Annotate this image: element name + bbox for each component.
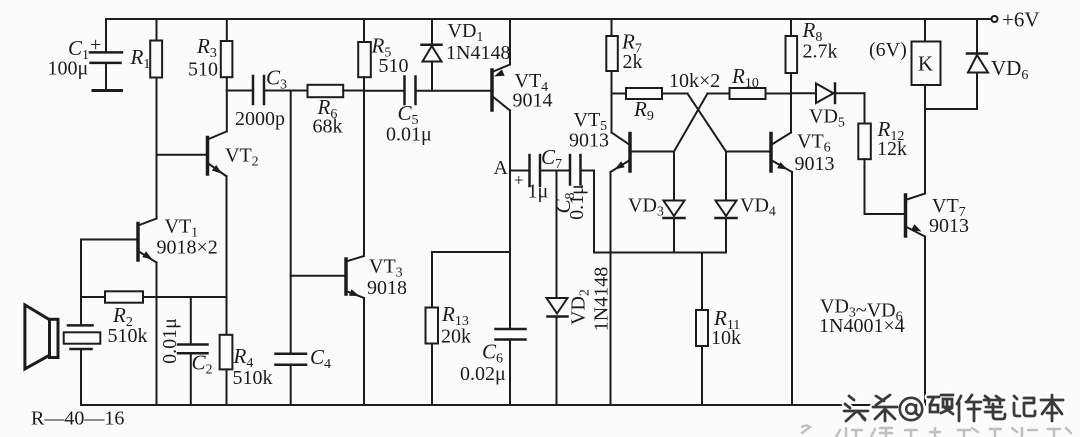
svg-text:2.7k: 2.7k	[803, 41, 838, 63]
svg-text:12k: 12k	[877, 138, 907, 160]
svg-text:510: 510	[379, 55, 409, 77]
svg-text:100μ: 100μ	[48, 58, 89, 80]
svg-text:+: +	[90, 34, 101, 56]
svg-text:0.02μ: 0.02μ	[460, 363, 506, 385]
svg-text:10k: 10k	[711, 327, 741, 349]
svg-text:510k: 510k	[233, 367, 273, 389]
svg-text:510: 510	[188, 59, 218, 81]
svg-text:A: A	[494, 157, 509, 179]
svg-text:2000p: 2000p	[235, 108, 285, 130]
svg-text:20k: 20k	[441, 326, 471, 348]
svg-text:9013: 9013	[929, 215, 969, 237]
svg-text:1N4148: 1N4148	[446, 42, 510, 64]
svg-text:9013: 9013	[569, 130, 609, 152]
svg-text:510k: 510k	[108, 325, 148, 347]
svg-text:+: +	[514, 171, 524, 190]
svg-text:9013: 9013	[795, 153, 835, 175]
svg-text:9018×2: 9018×2	[157, 237, 218, 259]
svg-text:0.1μ: 0.1μ	[566, 184, 588, 220]
svg-text:9014: 9014	[513, 90, 553, 112]
svg-text:1N4001×4: 1N4001×4	[819, 315, 905, 337]
svg-text:0.01μ: 0.01μ	[386, 124, 432, 146]
svg-text:68k: 68k	[313, 116, 343, 138]
svg-text:+6V: +6V	[1002, 8, 1040, 32]
svg-text:R—40—16: R—40—16	[31, 408, 124, 430]
svg-text:2k: 2k	[623, 51, 643, 73]
svg-text:10k×2: 10k×2	[669, 70, 720, 92]
svg-text:0.01μ: 0.01μ	[159, 318, 181, 364]
svg-text:1μ: 1μ	[528, 181, 549, 203]
svg-text:K: K	[918, 52, 933, 76]
svg-text:9018: 9018	[367, 277, 407, 299]
svg-text:(6V): (6V)	[869, 39, 907, 61]
svg-text:1N4148: 1N4148	[591, 267, 613, 331]
